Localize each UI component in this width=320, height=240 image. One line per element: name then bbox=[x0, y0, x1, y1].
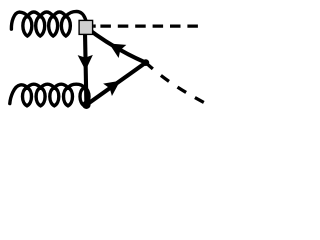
wire fermion A-B (left side of triangle loop) bbox=[85, 27, 87, 105]
dashed scalar line from vertex C down-right bbox=[146, 63, 204, 103]
gluon g2 (bottom incoming curly line) bbox=[10, 84, 89, 106]
arrow on A-B pointing down bbox=[78, 55, 93, 71]
wire fermion C-A (top side of triangle loop) bbox=[86, 27, 146, 62]
gluon g1 (top incoming curly line) bbox=[11, 11, 86, 36]
node B vertex dot bbox=[82, 101, 90, 109]
arrow on B-C pointing up-right bbox=[103, 81, 120, 96]
wire fermion B-C (bottom side of triangle loop) bbox=[86, 63, 145, 105]
dashed scalar line from box to the right bbox=[93, 24, 96, 27]
effective vertex box U1 (gray square) bbox=[79, 20, 93, 34]
dashed scalar line continuation bbox=[100, 24, 198, 27]
node C vertex dot bbox=[142, 59, 149, 66]
arrow on C-A pointing up-left bbox=[109, 44, 126, 58]
